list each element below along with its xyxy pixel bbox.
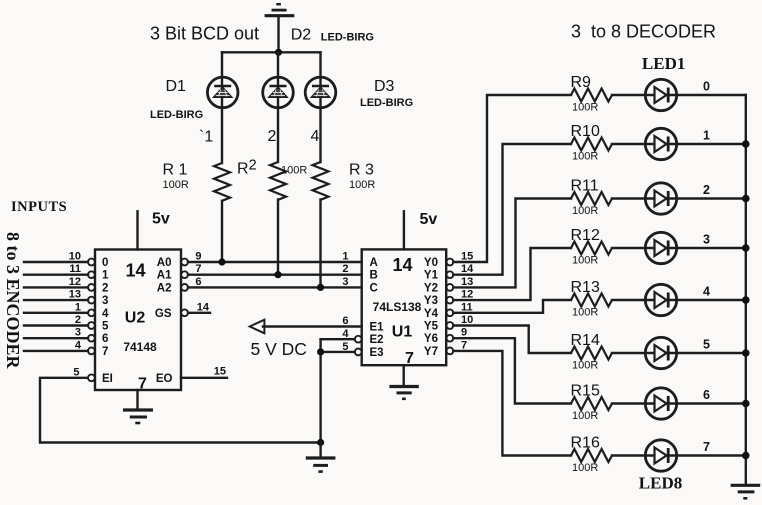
svg-text:6: 6 bbox=[195, 276, 201, 288]
wire R3 to node on wire C bbox=[319, 200, 321, 288]
U2 output bubbles (A0,A1,A2,GS) bbox=[181, 259, 188, 317]
power 5v rail stub (U2) bbox=[136, 211, 138, 249]
svg-text:R9: R9 bbox=[571, 74, 592, 91]
svg-text:Y4: Y4 bbox=[424, 308, 439, 320]
U1 output bubbles Y0-Y7 bbox=[447, 259, 454, 355]
LED row 0 (LED1) bbox=[645, 79, 676, 110]
wire E3 stub bbox=[321, 351, 355, 353]
svg-text:R11: R11 bbox=[571, 178, 599, 195]
node bus row 7 bbox=[742, 452, 750, 460]
svg-text:INPUTS: INPUTS bbox=[11, 199, 67, 215]
input wires 0-7 bbox=[24, 262, 88, 351]
resistor R11 bbox=[571, 192, 612, 205]
svg-text:4: 4 bbox=[703, 285, 710, 299]
resistor R15 bbox=[571, 397, 612, 410]
node bus row 6 bbox=[742, 400, 750, 408]
svg-text:A1: A1 bbox=[157, 270, 172, 282]
LED row 1 (LED2) bbox=[645, 128, 676, 159]
ground (below U1) bbox=[389, 365, 418, 399]
wire net Y7 to row 7 bbox=[453, 351, 746, 456]
svg-text:1: 1 bbox=[75, 301, 81, 313]
svg-text:Y6: Y6 bbox=[424, 333, 438, 345]
node bus row 3 bbox=[742, 244, 750, 252]
svg-text:7: 7 bbox=[461, 339, 467, 351]
svg-text:1: 1 bbox=[703, 129, 710, 143]
resistor R3 bbox=[313, 162, 329, 200]
wire R2 to node on wire B bbox=[277, 200, 279, 275]
LED row 6 (LED7) bbox=[645, 388, 676, 419]
svg-text:1: 1 bbox=[102, 270, 109, 282]
svg-text:12: 12 bbox=[461, 289, 473, 301]
LED D3 bbox=[305, 77, 336, 108]
wire EO stub bbox=[181, 377, 227, 379]
wire net Y5 to row 5 bbox=[453, 326, 746, 354]
svg-text:7: 7 bbox=[405, 350, 414, 367]
wire GS stub bbox=[188, 312, 210, 314]
svg-text:14: 14 bbox=[461, 263, 474, 275]
wire net Y3 to row 3 bbox=[453, 248, 746, 300]
U1 internal pin name labels bbox=[370, 257, 439, 359]
svg-text:9: 9 bbox=[195, 251, 201, 263]
svg-text:11: 11 bbox=[461, 301, 473, 313]
svg-text:A: A bbox=[370, 257, 378, 269]
svg-text:R16: R16 bbox=[571, 435, 600, 452]
svg-text:5: 5 bbox=[342, 341, 348, 353]
supply arrow head (5 V DC) bbox=[250, 320, 265, 334]
svg-text:5v: 5v bbox=[152, 211, 170, 228]
node D1/A bbox=[218, 258, 225, 265]
svg-text:3: 3 bbox=[102, 295, 108, 307]
wire net Y6 to row 6 bbox=[453, 338, 746, 403]
svg-text:100R: 100R bbox=[281, 165, 307, 177]
resistor R14 bbox=[571, 347, 612, 360]
svg-text:D3: D3 bbox=[374, 78, 395, 95]
wire EI net (pin5 to bottom rail) bbox=[40, 378, 321, 443]
wire A2 to C bbox=[188, 286, 362, 288]
resistor R12 bbox=[571, 242, 612, 255]
svg-text:2: 2 bbox=[268, 128, 277, 145]
svg-text:LED-BIRG: LED-BIRG bbox=[321, 32, 374, 44]
svg-text:3 Bit BCD out: 3 Bit BCD out bbox=[150, 24, 259, 44]
svg-text:R15: R15 bbox=[571, 383, 600, 400]
ground (bottom right bus) bbox=[731, 485, 761, 498]
svg-text:5 V DC: 5 V DC bbox=[251, 339, 307, 359]
svg-text:R 1: R 1 bbox=[163, 162, 188, 179]
svg-text:LED1: LED1 bbox=[642, 54, 685, 73]
node junction top rail / D2 bbox=[275, 49, 282, 56]
svg-text:13: 13 bbox=[69, 289, 81, 301]
LED row 5 (LED6) bbox=[645, 337, 676, 368]
svg-text:Y5: Y5 bbox=[424, 321, 439, 333]
svg-text:74LS138: 74LS138 bbox=[373, 300, 422, 314]
svg-text:EO: EO bbox=[156, 373, 173, 385]
U2 internal pin name labels bbox=[102, 257, 173, 385]
svg-text:Y0: Y0 bbox=[424, 257, 438, 269]
ground (below U2) bbox=[123, 390, 153, 423]
svg-text:5: 5 bbox=[102, 321, 109, 333]
svg-text:100R: 100R bbox=[349, 179, 375, 191]
wire net Y2 to row 2 bbox=[453, 199, 746, 288]
svg-text:4: 4 bbox=[75, 339, 82, 351]
IC U2 74148 body bbox=[95, 250, 181, 391]
svg-text:6: 6 bbox=[703, 388, 710, 402]
power 5v rail stub (U1) bbox=[403, 211, 405, 249]
svg-text:15: 15 bbox=[214, 366, 226, 378]
svg-text:`1: `1 bbox=[199, 129, 213, 146]
svg-text:100R: 100R bbox=[572, 255, 598, 267]
resistor R13 bbox=[571, 294, 612, 307]
svg-text:100R: 100R bbox=[163, 179, 189, 191]
U2 left pin numbers 10,11,12,13,1,2,3,4,5 bbox=[69, 251, 82, 379]
svg-text:C: C bbox=[370, 282, 378, 294]
pin numbers 9,7,6 (U2 outputs) bbox=[195, 251, 201, 288]
svg-text:14: 14 bbox=[392, 255, 412, 275]
wire E1 (5V DC to pin 6) bbox=[263, 325, 362, 327]
svg-text:A2: A2 bbox=[157, 282, 172, 294]
svg-text:9: 9 bbox=[461, 327, 467, 339]
wire D2 vertical bbox=[277, 52, 279, 162]
resistor R1 bbox=[214, 163, 230, 201]
svg-text:3 to 8 DECODER: 3 to 8 DECODER bbox=[571, 22, 716, 42]
svg-text:10: 10 bbox=[69, 251, 81, 263]
svg-text:B: B bbox=[370, 270, 378, 282]
svg-text:Y3: Y3 bbox=[424, 295, 438, 307]
svg-text:13: 13 bbox=[461, 276, 473, 288]
svg-text:U2: U2 bbox=[125, 310, 146, 327]
pin numbers 1,2,3 (U1 inputs) bbox=[342, 251, 348, 288]
LED row 4 (LED5) bbox=[645, 284, 676, 315]
svg-text:2: 2 bbox=[342, 263, 348, 275]
LED D2 bbox=[263, 77, 294, 108]
svg-text:10: 10 bbox=[461, 314, 473, 326]
wire A1 to B bbox=[188, 274, 362, 276]
U1 right pin numbers 15,14,13,12,11,10,9,7 bbox=[461, 251, 474, 352]
svg-text:6: 6 bbox=[102, 333, 108, 345]
svg-text:2: 2 bbox=[102, 282, 108, 294]
U1 enable bubbles E2,E3 bbox=[355, 336, 362, 355]
wire D3 vertical bbox=[319, 52, 321, 162]
LED D1 bbox=[207, 77, 238, 108]
svg-text:EI: EI bbox=[102, 373, 113, 385]
LED row 2 (LED3) bbox=[645, 183, 676, 214]
wire D1 vertical bbox=[221, 52, 223, 163]
svg-text:100R: 100R bbox=[572, 360, 598, 372]
svg-text:11: 11 bbox=[69, 263, 81, 275]
svg-text:LED8: LED8 bbox=[639, 474, 682, 493]
node bus row 4 bbox=[742, 296, 750, 304]
wire E2 stub bbox=[321, 338, 355, 340]
node D2/B bbox=[274, 271, 281, 278]
U2 input bubbles (pins 0-7, EI) bbox=[88, 259, 95, 382]
node bottom rail junction bbox=[317, 439, 324, 446]
wire A0 to A bbox=[188, 261, 362, 263]
resistor R2 bbox=[270, 162, 286, 200]
svg-text:GS: GS bbox=[155, 308, 172, 320]
resistor R10 bbox=[571, 138, 612, 151]
svg-text:7: 7 bbox=[195, 263, 201, 275]
svg-text:1: 1 bbox=[342, 251, 348, 263]
svg-text:R12: R12 bbox=[571, 227, 600, 244]
svg-text:LED-BIRG: LED-BIRG bbox=[360, 97, 413, 109]
svg-text:100R: 100R bbox=[572, 151, 598, 163]
svg-text:3: 3 bbox=[703, 233, 710, 247]
svg-text:E3: E3 bbox=[370, 347, 384, 359]
svg-text:100R: 100R bbox=[572, 410, 598, 422]
svg-text:14: 14 bbox=[125, 261, 145, 281]
svg-text:R 3: R 3 bbox=[349, 162, 374, 179]
svg-text:2: 2 bbox=[703, 183, 710, 197]
wire R1 to node on wire A bbox=[221, 201, 223, 262]
node bus row 5 bbox=[742, 349, 750, 357]
resistor R16 bbox=[571, 449, 612, 462]
svg-text:3: 3 bbox=[75, 327, 81, 339]
svg-text:A0: A0 bbox=[157, 257, 172, 269]
svg-text:E2: E2 bbox=[370, 334, 384, 346]
svg-text:3: 3 bbox=[342, 276, 348, 288]
svg-text:74148: 74148 bbox=[123, 340, 157, 354]
svg-text:Y7: Y7 bbox=[424, 346, 438, 358]
svg-text:5: 5 bbox=[703, 338, 710, 352]
node E3 junction bbox=[317, 348, 324, 355]
svg-text:7: 7 bbox=[138, 376, 147, 393]
svg-text:Y1: Y1 bbox=[424, 270, 439, 282]
ground (bottom middle) bbox=[306, 443, 336, 472]
IC U1 74LS138 body bbox=[362, 249, 447, 365]
svg-text:R13: R13 bbox=[571, 279, 600, 296]
svg-text:0: 0 bbox=[703, 80, 710, 94]
svg-text:2: 2 bbox=[75, 314, 81, 326]
node bus row 2 bbox=[742, 195, 750, 203]
svg-text:7: 7 bbox=[703, 440, 710, 454]
ground (top, above D2) bbox=[265, 4, 295, 52]
wire net Y4 to row 4 bbox=[453, 300, 746, 313]
svg-text:100R: 100R bbox=[572, 307, 598, 319]
svg-text:LED-BIRG: LED-BIRG bbox=[150, 109, 203, 121]
svg-text:100R: 100R bbox=[572, 462, 598, 474]
svg-text:8 to 3 ENCODER: 8 to 3 ENCODER bbox=[3, 232, 23, 370]
svg-text:D2: D2 bbox=[291, 27, 312, 44]
svg-text:7: 7 bbox=[102, 346, 108, 358]
svg-text:E1: E1 bbox=[370, 322, 385, 334]
svg-text:5: 5 bbox=[73, 366, 79, 378]
svg-text:100R: 100R bbox=[572, 205, 598, 217]
svg-text:100R: 100R bbox=[572, 102, 598, 114]
svg-text:4: 4 bbox=[102, 308, 109, 320]
wire net Y0 to row 0 bbox=[453, 95, 746, 262]
svg-text:0: 0 bbox=[102, 257, 108, 269]
svg-text:U1: U1 bbox=[392, 324, 413, 341]
wire right bus bbox=[745, 95, 747, 485]
svg-text:6: 6 bbox=[342, 315, 348, 327]
svg-text:14: 14 bbox=[197, 301, 210, 313]
wire E2/E3 to ground rail bbox=[319, 339, 321, 442]
resistor R9 bbox=[571, 89, 612, 102]
svg-text:15: 15 bbox=[461, 251, 473, 263]
svg-text:R14: R14 bbox=[571, 332, 600, 349]
svg-text:R10: R10 bbox=[571, 123, 600, 140]
svg-text:Y2: Y2 bbox=[424, 282, 438, 294]
svg-text:4: 4 bbox=[342, 328, 349, 340]
wire net Y1 to row 1 bbox=[453, 144, 746, 275]
svg-text:4: 4 bbox=[311, 128, 320, 145]
svg-text:R2: R2 bbox=[237, 158, 257, 178]
LED row 3 (LED4) bbox=[645, 232, 676, 263]
svg-text:D1: D1 bbox=[166, 78, 187, 95]
node D3/C bbox=[317, 284, 324, 291]
wire top rail bbox=[222, 51, 321, 53]
LED row 7 (LED8) bbox=[645, 440, 676, 471]
node bus row 1 bbox=[742, 140, 750, 148]
svg-text:5v: 5v bbox=[420, 211, 438, 228]
svg-text:12: 12 bbox=[69, 276, 81, 288]
